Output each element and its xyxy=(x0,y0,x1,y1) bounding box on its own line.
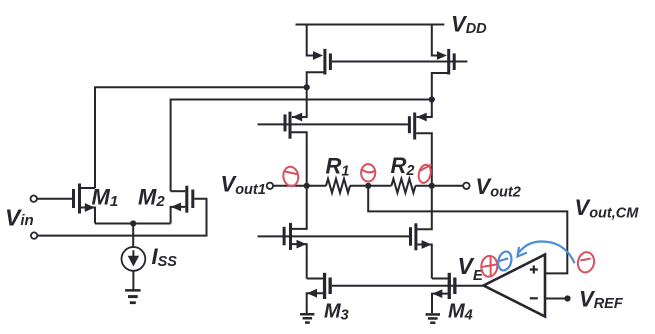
annotation: red theta at Vout,CM xyxy=(576,251,596,274)
node: Vout1 column junction xyxy=(304,183,310,189)
wire: cascode NMOS pair gate lead xyxy=(258,235,410,237)
svg-text:R1: R1 xyxy=(326,154,350,180)
wire: Vin+ to M1 gate xyxy=(37,198,72,200)
annotation: red slashed circle at Vout1 xyxy=(282,166,299,187)
output terminal Vout2 xyxy=(463,183,469,189)
transistor M3 xyxy=(307,273,332,313)
svg-text:M3: M3 xyxy=(324,301,349,324)
svg-text:M4: M4 xyxy=(448,301,473,324)
op-amp U1 (CMFB error amplifier) xyxy=(484,255,546,317)
node: tail junction xyxy=(130,220,136,226)
output terminal Vout1 xyxy=(267,183,273,189)
resistor R2 xyxy=(391,179,415,193)
transistor M4 xyxy=(432,273,457,313)
transistor MP2 (right PMOS current source) xyxy=(432,25,456,100)
current source ISS xyxy=(121,224,145,290)
svg-text:M1: M1 xyxy=(92,185,119,211)
wire: Vin- to M2 gate xyxy=(38,199,207,236)
svg-text:Vout,CM: Vout,CM xyxy=(575,195,640,222)
node: R1/R2 midpoint xyxy=(365,183,371,189)
ground (M4) xyxy=(426,313,441,324)
wire: M1 drain to MP1 drain xyxy=(95,87,307,188)
svg-text:Vout2: Vout2 xyxy=(476,174,521,200)
annotation: red theta at R1/R2 midpoint xyxy=(361,164,375,181)
annotation: blue theta at VE xyxy=(496,250,513,272)
annotation: red theta right of R2 xyxy=(417,163,433,184)
svg-text:ISS: ISS xyxy=(152,244,178,270)
wire: cascode PMOS pair gate lead xyxy=(258,123,408,125)
wire: CM sense (midpoint to error amp + input) xyxy=(368,186,567,274)
annotation: blue curved arrow xyxy=(518,241,575,263)
node: VREF terminal dot xyxy=(564,295,570,301)
svg-text:VREF: VREF xyxy=(579,286,624,312)
node B (M2/MP2 drain junction) xyxy=(429,96,435,102)
wire: R2 to Vout2 xyxy=(415,185,463,187)
wire: PMOS pair gate lead xyxy=(332,61,468,63)
wire: M2 drain to MP2 drain xyxy=(171,100,432,192)
wire: op-amp - input to VREF xyxy=(545,298,568,300)
resistor R1 xyxy=(326,179,350,193)
svg-text:R2: R2 xyxy=(391,153,415,179)
input terminal Vin+ xyxy=(31,196,37,202)
transistor M2 xyxy=(171,186,195,224)
svg-text:Vout1: Vout1 xyxy=(221,171,266,197)
transistor MN2 (cascode NMOS right) xyxy=(409,186,432,279)
node: Vout2 column junction xyxy=(429,183,435,189)
svg-text:VE: VE xyxy=(458,253,484,284)
VDD rail xyxy=(296,24,445,26)
transistor MP1 (left PMOS current source) xyxy=(307,25,332,88)
annotation: red circled plus at VE xyxy=(480,255,498,277)
svg-text:VDD: VDD xyxy=(451,12,487,37)
transistor MP3 (cascode PMOS left) xyxy=(284,87,307,186)
ground (tail) xyxy=(125,289,141,304)
node A (M1/MP1 drain junction) xyxy=(304,84,310,90)
wire: M3/M4 gates to error amp output VE xyxy=(332,285,483,287)
wire: R1 to midpoint xyxy=(350,185,368,187)
transistor MP4 (cascode PMOS right) xyxy=(408,100,432,186)
svg-text:M2: M2 xyxy=(138,185,165,211)
ground (M3) xyxy=(300,313,314,324)
wire: differential pair tail xyxy=(95,223,171,225)
transistor MN1 (cascode NMOS left) xyxy=(283,186,307,279)
transistor M1 xyxy=(72,184,95,224)
input terminal Vin- xyxy=(31,232,37,238)
svg-text:Vin: Vin xyxy=(5,205,34,231)
wire: midpoint to R2 xyxy=(368,185,391,187)
wire: Vout1 to R1 xyxy=(273,185,326,187)
